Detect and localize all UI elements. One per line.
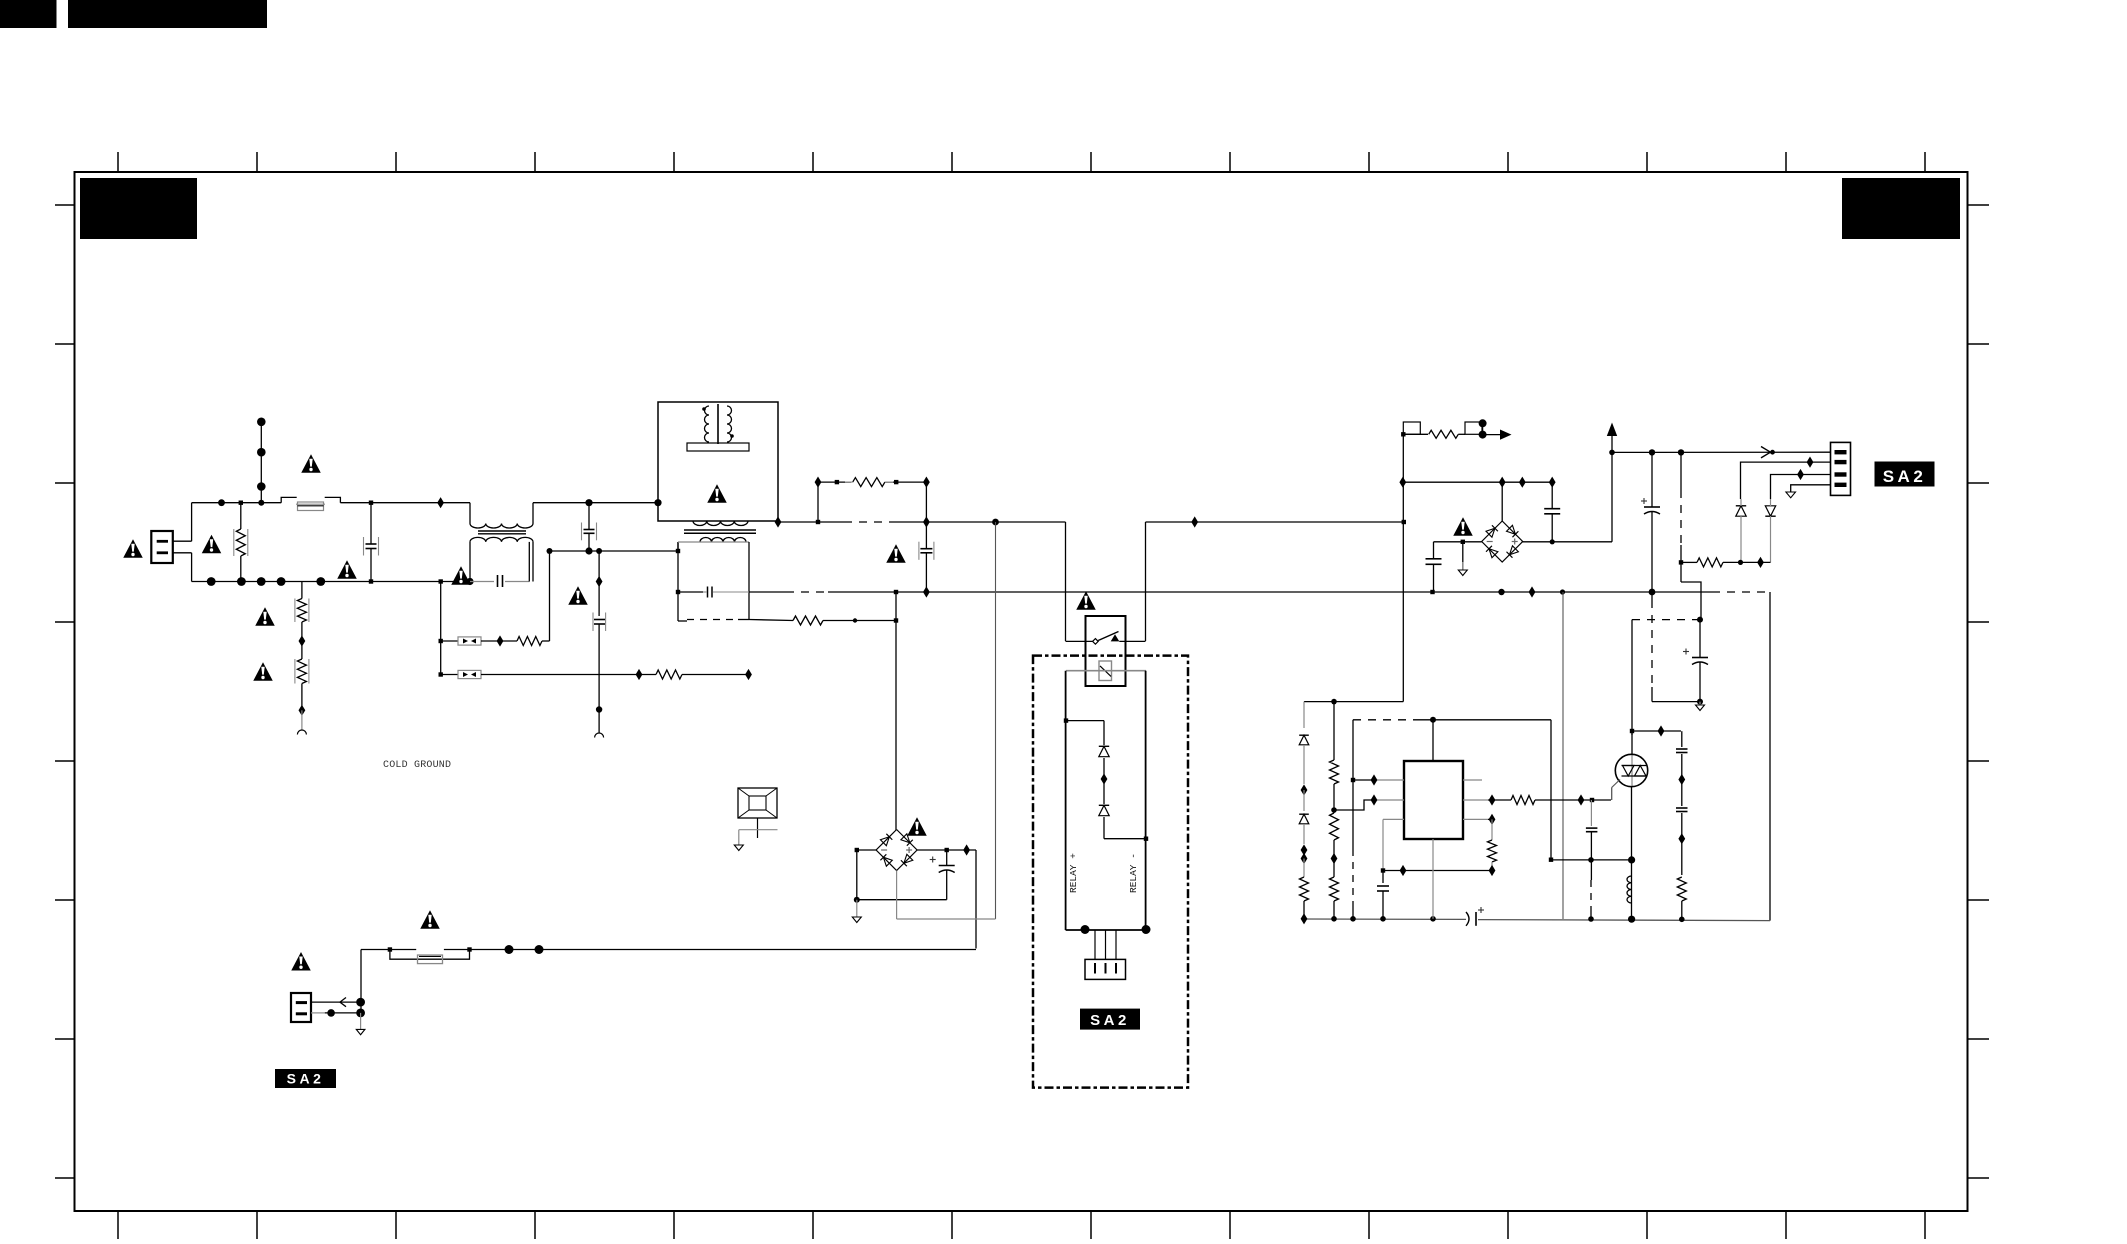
- svg-text:SA2: SA2: [1090, 1012, 1130, 1029]
- svg-text:SA2: SA2: [287, 1071, 325, 1087]
- svg-text:RELAY -: RELAY -: [1128, 853, 1139, 893]
- svg-text:SA2: SA2: [1883, 467, 1927, 486]
- svg-text:RELAY +: RELAY +: [1068, 853, 1079, 893]
- svg-text:COLD GROUND: COLD GROUND: [383, 760, 451, 771]
